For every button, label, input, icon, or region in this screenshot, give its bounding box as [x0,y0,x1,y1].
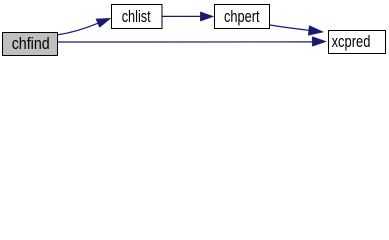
node xcpred [329,31,386,54]
arrowhead into xcpred (upper) [308,26,323,36]
arrowhead into xcpred (lower) [312,37,326,47]
wire chfind to chlist [58,23,98,35]
node chlist [112,5,163,29]
node chfind (current, gray) [3,33,58,56]
svg-text:chfind: chfind [12,35,50,53]
arrowhead into chpert [200,12,213,21]
node chpert [215,5,270,29]
wire chfind to xcpred [58,41,313,43]
wire chlist to chpert [163,15,201,17]
wire chpert to xcpred [269,25,309,30]
arrowhead into chlist [96,18,111,27]
svg-text:chlist: chlist [122,8,151,26]
svg-text:xcpred: xcpred [332,33,371,51]
svg-text:chpert: chpert [224,8,260,26]
